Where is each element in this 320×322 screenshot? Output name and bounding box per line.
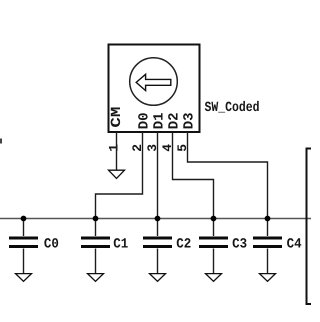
svg-text:C0: C0 [44, 236, 59, 252]
svg-text:D3: D3 [181, 112, 197, 129]
svg-text:C2: C2 [176, 236, 191, 252]
svg-text:D0: D0 [136, 112, 152, 129]
svg-text:D2: D2 [166, 112, 182, 129]
svg-text:CM: CM [109, 107, 125, 128]
svg-text:C4: C4 [287, 236, 302, 252]
svg-text:SW_Coded: SW_Coded [205, 100, 260, 116]
svg-text:C1: C1 [113, 236, 128, 252]
svg-text:C3: C3 [232, 236, 247, 252]
svg-text:D1: D1 [151, 112, 167, 129]
svg-text:1: 1 [106, 144, 121, 152]
